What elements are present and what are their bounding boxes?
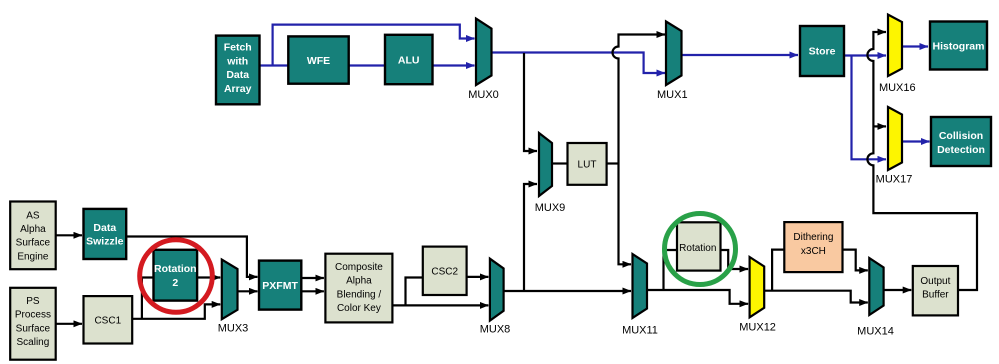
- mux MUX0: [476, 19, 492, 85]
- highlight green circle around Rotation: [665, 214, 736, 285]
- svg-text:Dithering: Dithering: [793, 232, 833, 243]
- svg-text:LUT: LUT: [578, 160, 597, 171]
- wire fetch output to WFE (blue main): [260, 64, 289, 66]
- svg-text:MUX1: MUX1: [657, 89, 688, 101]
- wire AS engine to Data Swizzle: [56, 234, 82, 236]
- svg-text:MUX8: MUX8: [480, 324, 511, 336]
- block WFE: [288, 36, 348, 83]
- svg-text:CSC1: CSC1: [94, 316, 121, 327]
- svg-text:MUX0: MUX0: [468, 89, 499, 101]
- svg-text:Buffer: Buffer: [922, 290, 949, 301]
- svg-text:Process: Process: [15, 310, 51, 321]
- svg-text:MUX11: MUX11: [622, 325, 658, 337]
- label Rotation 2: [154, 263, 197, 289]
- wire MUX17 output to Collision Detection: [902, 140, 930, 142]
- svg-text:x3CH: x3CH: [801, 246, 826, 257]
- label Composite Alpha Blending / Color Key: [335, 262, 383, 314]
- svg-text:Composite: Composite: [335, 262, 383, 273]
- wire CSC1 branch up to Rotation 2 input: [142, 278, 154, 319]
- block CSC1: [84, 296, 133, 343]
- svg-text:PXFMT: PXFMT: [262, 280, 298, 292]
- svg-text:CSC2: CSC2: [431, 267, 458, 278]
- mux MUX1: [666, 22, 682, 86]
- svg-text:Engine: Engine: [17, 251, 49, 262]
- label Collision Detection: [937, 130, 985, 156]
- wire LUT output to vertical bus: [607, 162, 619, 164]
- wire ALU to MUX0 lower input: [433, 64, 475, 66]
- wire MUX3 output to PXFMT lower input: [238, 290, 258, 292]
- wire Composite output to MUX8 lower input: [392, 304, 488, 306]
- wire Store output branch down to MUX17 lower input: [852, 56, 887, 160]
- wire branch up to MUX9 lower input: [524, 184, 537, 291]
- svg-text:AS: AS: [26, 210, 40, 221]
- svg-text:with: with: [226, 56, 248, 68]
- svg-text:Array: Array: [224, 83, 252, 95]
- mux MUX17: [888, 107, 902, 170]
- wire PS scaling to CSC1: [56, 323, 82, 325]
- block Histogram: [930, 22, 987, 70]
- wire Rotation output to MUX12 top input: [721, 250, 749, 269]
- svg-text:Collision: Collision: [939, 130, 983, 142]
- wire PXFMT output 2 to Composite: [301, 290, 324, 292]
- wire Dithering output to MUX14 top input: [843, 250, 868, 271]
- svg-text:Blending /: Blending /: [337, 289, 382, 300]
- svg-text:Rotation: Rotation: [679, 243, 716, 254]
- block ALU: [385, 35, 433, 84]
- svg-text:WFE: WFE: [307, 55, 330, 67]
- block Rotation: [677, 222, 721, 270]
- block Rotation 2: [154, 250, 198, 301]
- svg-text:Surface: Surface: [16, 323, 51, 334]
- block Output Buffer: [913, 266, 958, 315]
- wire MUX14 output to Output Buffer: [884, 289, 912, 291]
- svg-text:Detection: Detection: [937, 144, 985, 156]
- wire feedback Output Buffer up with hops to MUX16 top input: [867, 32, 977, 290]
- wire MUX12 output to MUX14 lower input: [764, 291, 868, 303]
- svg-text:Output: Output: [920, 276, 950, 287]
- svg-text:Histogram: Histogram: [933, 41, 985, 53]
- svg-text:2: 2: [172, 277, 178, 289]
- svg-text:Data: Data: [93, 222, 116, 234]
- wire MUX9 output to LUT: [552, 162, 568, 164]
- wire MUX1 output to Store: [682, 54, 799, 56]
- label Fetch with Data Array: [224, 42, 252, 95]
- svg-text:Data: Data: [226, 69, 249, 81]
- svg-text:Fetch: Fetch: [224, 42, 252, 54]
- wire MUX8 output to MUX11 lower input: [504, 290, 631, 292]
- svg-text:Swizzle: Swizzle: [86, 236, 124, 248]
- wire CSC1 output to MUX3 lower input: [132, 304, 220, 318]
- label Output Buffer: [920, 276, 950, 301]
- svg-text:Surface: Surface: [16, 238, 51, 249]
- svg-text:Scaling: Scaling: [16, 337, 49, 348]
- wire LUT bus up with hop to MUX1 top input: [613, 35, 666, 164]
- svg-text:Store: Store: [809, 46, 836, 58]
- wire branch up to Dithering input: [772, 250, 784, 291]
- wire LUT bus down to MUX11 top input: [619, 164, 632, 265]
- wire Data Swizzle bypass to PXFMT top input: [126, 237, 257, 277]
- block Collision Detection: [931, 117, 991, 166]
- mux MUX12: [750, 257, 765, 317]
- block Store: [800, 26, 844, 76]
- block Data Swizzle: [84, 209, 127, 259]
- wire Store output to MUX16 lower input: [844, 54, 886, 56]
- wire MUX11 output to MUX12 lower input: [647, 290, 748, 304]
- wire blue tap down to MUX9 top input: [524, 53, 537, 151]
- svg-text:Rotation: Rotation: [154, 263, 197, 275]
- label AS Alpha Surface Engine: [16, 210, 51, 262]
- highlight red circle around Rotation 2: [140, 240, 213, 313]
- label Data Swizzle: [86, 222, 124, 248]
- block AS Alpha Surface Engine: [10, 202, 56, 270]
- svg-text:PS: PS: [26, 296, 40, 307]
- mux MUX16: [888, 15, 902, 76]
- svg-text:MUX3: MUX3: [218, 323, 249, 335]
- wire CSC2 output to MUX8 top input: [467, 276, 489, 278]
- wire branch up to Rotation input: [664, 250, 678, 290]
- block Dithering x3CH: [784, 222, 842, 272]
- block LUT: [568, 143, 607, 185]
- label Dithering x3CH: [793, 232, 833, 257]
- label PS Process Surface Scaling: [15, 296, 51, 348]
- block Fetch with Data Array: [216, 36, 260, 105]
- svg-text:MUX16: MUX16: [879, 82, 916, 94]
- wire fetch bypass up and over to MUX0 top input: [273, 25, 475, 66]
- wire PXFMT output 1 to Composite: [301, 277, 324, 279]
- mux MUX3: [222, 260, 238, 320]
- wire MUX0 output to MUX1 lower input: [492, 53, 666, 74]
- svg-text:Alpha: Alpha: [20, 224, 46, 235]
- block PXFMT: [259, 261, 301, 310]
- mux MUX8: [490, 259, 504, 321]
- wire branch up into CSC2: [406, 278, 423, 306]
- block CSC2: [423, 247, 467, 295]
- wire feedback branch to MUX17 top input: [873, 125, 886, 127]
- svg-text:ALU: ALU: [398, 54, 420, 66]
- svg-text:MUX14: MUX14: [857, 326, 894, 338]
- mux MUX14: [869, 258, 883, 315]
- wire MUX16 output to Histogram: [902, 45, 928, 47]
- mux MUX9: [539, 133, 552, 196]
- block Composite Alpha Blending / Color Key: [325, 254, 392, 323]
- svg-text:MUX17: MUX17: [876, 174, 913, 186]
- block PS Process Surface Scaling: [10, 288, 56, 360]
- mux MUX11: [633, 254, 648, 318]
- svg-text:Alpha: Alpha: [346, 276, 372, 287]
- wire WFE to ALU: [349, 64, 385, 66]
- svg-text:MUX12: MUX12: [739, 322, 776, 334]
- svg-text:MUX9: MUX9: [535, 202, 566, 214]
- svg-text:Color Key: Color Key: [337, 303, 381, 314]
- wire Rotation 2 output to MUX3 top input: [197, 276, 220, 278]
